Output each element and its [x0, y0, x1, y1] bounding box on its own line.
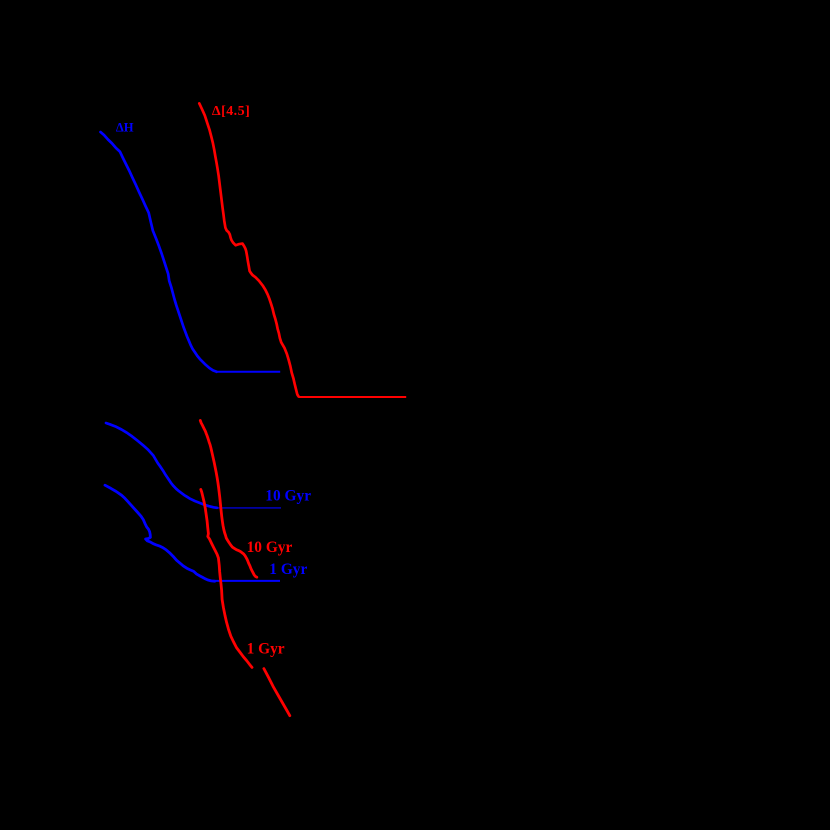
- curve Delta[4.5] (red, top panel): [199, 103, 298, 396]
- thin plateau line of blue Delta-H curve: [217, 371, 281, 373]
- svg-text:10 Gyr: 10 Gyr: [247, 539, 293, 556]
- thin limit line of blue 10 Gyr curve: [217, 507, 281, 509]
- svg-text:10 Gyr: 10 Gyr: [265, 487, 311, 504]
- curve 10 Gyr (blue, bottom panel): [106, 423, 217, 508]
- svg-text:Δ[4.5]: Δ[4.5]: [212, 104, 250, 119]
- thin limit line of blue 1 Gyr curve: [215, 580, 280, 582]
- svg-text:1 Gyr: 1 Gyr: [247, 641, 285, 658]
- thin plateau line of red Delta[4.5] curve: [299, 396, 407, 398]
- curve 1 Gyr (red, bottom panel, lower detached segment): [264, 669, 290, 716]
- curve 1 Gyr (blue, bottom panel): [105, 485, 215, 581]
- curve 10 Gyr (red, bottom panel): [200, 421, 256, 578]
- svg-text:1 Gyr: 1 Gyr: [269, 561, 307, 578]
- curve Delta-H (blue, top panel): [101, 132, 217, 372]
- curve 1 Gyr (red, bottom panel, upper segment): [201, 489, 252, 667]
- svg-text:ΔH: ΔH: [116, 120, 134, 134]
